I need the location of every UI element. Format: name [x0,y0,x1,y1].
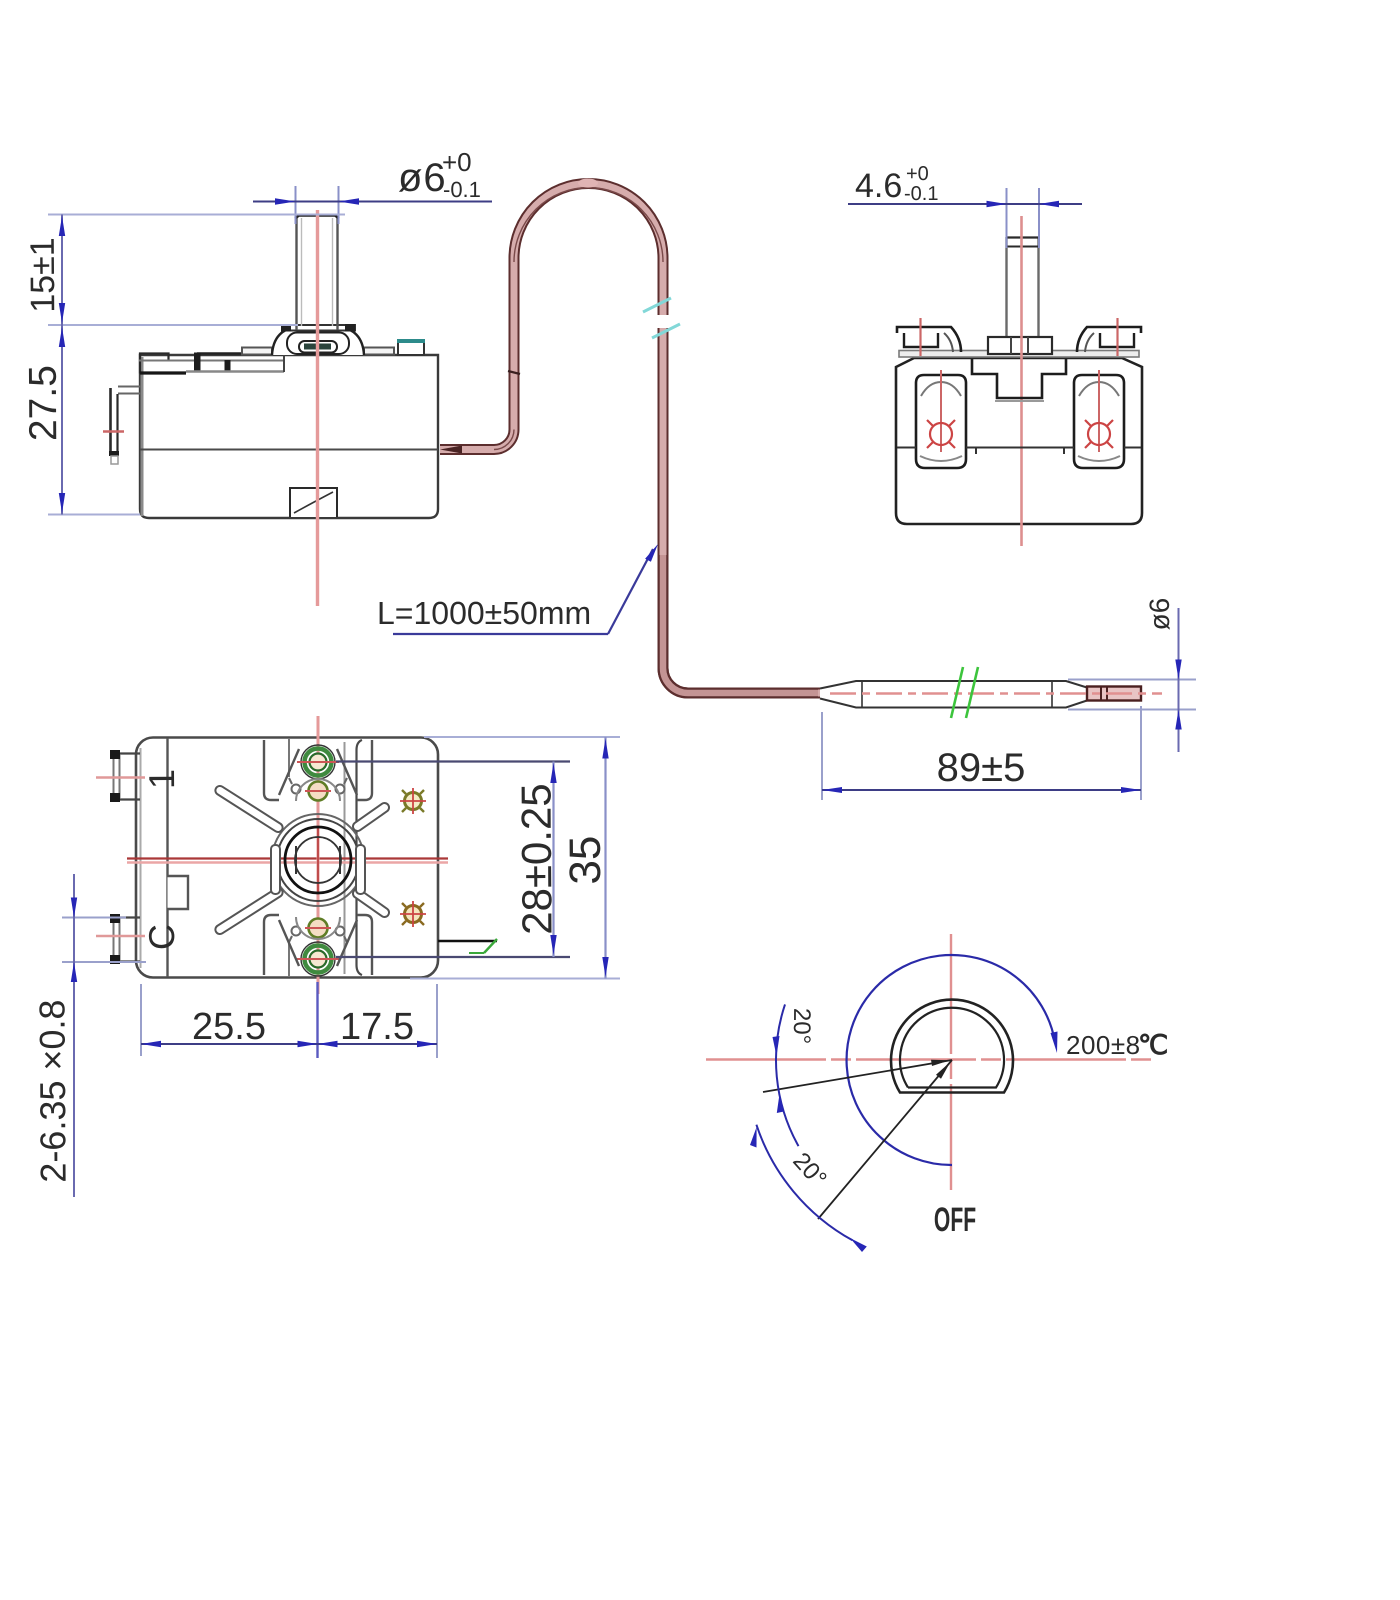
dimension ø6 +0/-0.1 (shaft) [253,147,492,224]
shaft collar nut [988,337,1052,354]
shaft (front) [1007,237,1038,338]
terminal tab C (bottom) [96,914,145,964]
spoke slot NE [351,801,391,832]
capillary tube (S-loop from body to probe) [377,179,820,694]
svg-text:+0: +0 [906,163,929,185]
dimension ø6 (probe diameter) [1068,598,1196,752]
central stepped notch [972,359,1066,398]
probe red centerline [830,692,1162,695]
central boss rings [272,814,364,906]
svg-text:15±1: 15±1 [24,237,63,313]
top edge thick underline [140,371,186,374]
knob rotation diagram (D-shaft section) [706,934,1168,1252]
left cavity slot [916,375,966,468]
collar top bar [282,325,355,331]
capillary exit (bottom view) [438,940,497,943]
bottom mounting hole (green) [301,942,335,976]
side view: thermostat body (side elevation) [103,210,438,606]
top flange band [899,351,1139,358]
right cavity slot [1074,375,1124,468]
mid horizontal line [897,447,916,449]
terminal tab 1 (top) [96,750,145,802]
spoke slot SE [351,887,391,918]
pointer line 2 [818,1060,952,1219]
bottom small hole [309,919,328,938]
dimension 35 (body height) [410,737,620,979]
top edge left step [140,354,169,374]
washer plate right of collar [364,348,394,355]
D-shaft inner profile [900,1008,1004,1088]
entry wedge at body [440,446,462,454]
side wing slot right [356,845,365,894]
shaft red centerline (front) [1020,216,1023,546]
svg-text:C: C [141,924,182,950]
top edge right drop [283,354,285,373]
top bracket hooks [264,740,299,800]
body left edge (thick) [141,357,144,516]
top hole side curls [292,785,301,794]
top edge dark band 2 [225,360,231,373]
body outline [136,738,438,978]
probe body [820,681,1087,708]
svg-text:-0.1: -0.1 [904,183,938,205]
sensing probe (bulb) [820,667,1162,718]
svg-text:OFF: OFF [934,1201,976,1239]
svg-text:L=1000±50mm: L=1000±50mm [377,595,591,631]
svg-text:200±8: 200±8 [1066,1030,1141,1060]
inner cover verticals [344,742,346,974]
washer plate left of collar [242,348,272,355]
bottom bracket hooks [264,915,299,975]
shaft [297,216,338,324]
top edge gray shelf line [139,360,285,362]
collar inner stadium inner [299,341,337,353]
apex pink patch [578,179,598,188]
svg-text:ø6: ø6 [398,156,447,200]
red centerline vertical [317,716,320,994]
pointer line 1 [763,1060,952,1092]
angle arc 20 deg (first) [776,1004,799,1146]
svg-text:20°: 20° [788,1008,815,1044]
terminal red centerline [103,430,124,432]
D-hole chords [295,846,297,874]
svg-text:+0: +0 [442,147,472,177]
bottom view: thermostat back with mounting pattern [96,716,497,994]
svg-text:89±5: 89±5 [937,746,1026,790]
capillary lower run (darker) [663,555,818,693]
right crosshair target top [400,788,426,814]
collar inner stadium outer [287,333,349,355]
dimension 25.5 / 17.5 (bottom) [141,982,437,1058]
top dome arc [296,779,340,801]
joint mark on left riser [508,371,520,374]
collar dome [272,328,364,355]
svg-text:ø6: ø6 [1144,598,1175,631]
svg-text:4.6: 4.6 [855,167,902,205]
right mounting ear [1077,327,1141,352]
spoke slot SW [214,886,285,935]
svg-text:℃: ℃ [1138,1030,1168,1060]
bottom notch with diagonal [290,488,337,517]
bottom dome arc [296,917,340,939]
probe tip [1087,687,1141,701]
bottom hole side curls [292,927,301,936]
probe internal lines [861,681,863,707]
teal-topped tab [398,341,424,355]
svg-text:-0.1: -0.1 [443,177,481,202]
left mounting ear [897,327,961,352]
top small hole [309,782,328,801]
front view: thermostat body (front elevation) [896,216,1142,546]
svg-text:35: 35 [561,835,610,884]
angle arc 20 deg (second) [756,1125,852,1241]
svg-text:25.5: 25.5 [192,1006,266,1048]
D-shaft outer profile [891,1000,1013,1093]
red centerline vertical [950,934,952,1190]
red centerline horizontal [706,1058,1156,1060]
top edge dark band 1 [194,353,201,373]
body outline [140,355,438,518]
shaft red centerline [316,210,319,606]
capillary mid-line in bends [494,430,514,450]
left slot crosshair [930,423,952,445]
dimension 4.6 +0/-0.1 (front shaft) [848,163,1082,248]
left inner vertical [166,738,168,977]
top mounting hole (green) [301,745,335,779]
inner panel short verticals [288,739,290,777]
spoke slot NW [214,784,285,833]
dimension 89±5 (probe length) [822,706,1141,800]
svg-text:28±0.25: 28±0.25 [512,783,560,935]
collar seal (dark) [304,344,331,350]
svg-text:17.5: 17.5 [340,1006,414,1048]
dimension 15±1 and 27.5 (left of side view) [22,215,345,515]
body outline [896,358,1142,524]
top edge raised plate line [197,352,283,354]
right crosshair target bottom [400,901,426,927]
dimension 28±0.25 (hole spacing) [336,762,570,958]
svg-text:27.5: 27.5 [22,365,66,441]
body mid horizontal line [140,449,438,451]
leader L=1000±50mm [393,633,608,635]
cyan break marks on right riser [656,315,670,328]
red centerline horizontal [127,857,448,859]
rotation arc (blue) [847,955,1055,1165]
left terminal blade (edge-on) [118,386,141,388]
green break marks on probe [951,667,963,718]
left panel notch [168,876,189,909]
svg-text:1: 1 [141,769,182,789]
dimension 2-6.35 x0.8 (terminal) [31,874,146,1197]
right slot crosshair [1088,423,1110,445]
svg-text:2-6.35 ×0.8: 2-6.35 ×0.8 [31,999,73,1182]
side wing slot left [271,845,280,894]
